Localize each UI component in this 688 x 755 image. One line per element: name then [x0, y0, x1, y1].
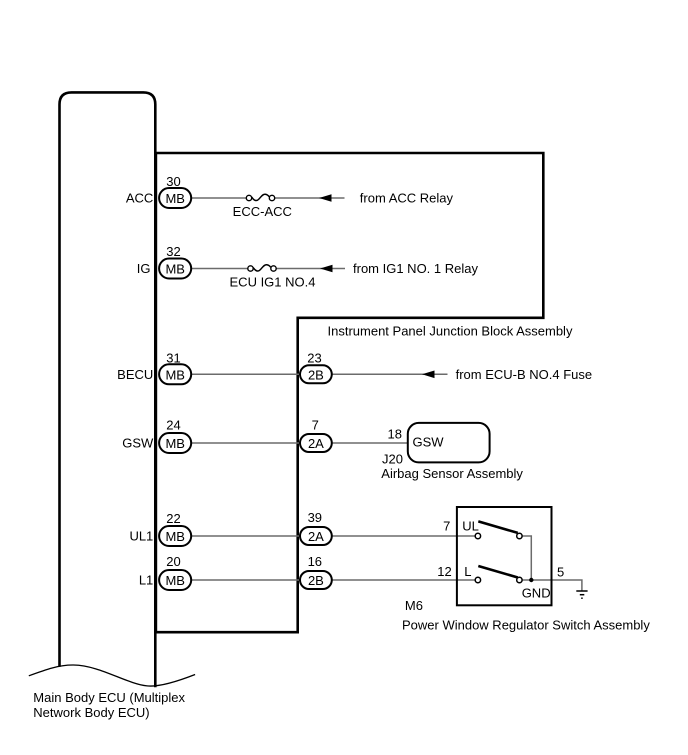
svg-text:M6: M6 [405, 598, 423, 613]
svg-text:12: 12 [437, 564, 451, 579]
wire L1: pin MB20 to junction block pin 2B16 [191, 579, 300, 581]
wire BECU: pin MB31 to junction block pin 2B23 [191, 373, 300, 375]
svg-text:22: 22 [166, 511, 180, 526]
svg-text:2B: 2B [308, 367, 324, 382]
wire IG: pin MB32 to fuse ECU IG1 NO.4 [191, 268, 248, 270]
wire ACC: pin MB30 to fuse ECC-ACC [191, 197, 246, 199]
svg-text:GSW: GSW [413, 434, 445, 449]
svg-text:MB: MB [165, 262, 185, 277]
svg-text:Power Window Regulator Switch: Power Window Regulator Switch Assembly [402, 618, 650, 633]
svg-text:ECU IG1 NO.4: ECU IG1 NO.4 [230, 275, 316, 290]
wire: switch UL contact to common junction [522, 536, 531, 580]
svg-text:2A: 2A [308, 436, 324, 451]
wire: pin 2A39 to switch pin 7 [332, 535, 478, 537]
svg-text:from ACC Relay: from ACC Relay [360, 191, 454, 206]
svg-text:GND: GND [522, 586, 551, 601]
connector MB pin 20 (L1) [159, 570, 191, 590]
svg-text:J20: J20 [382, 452, 403, 467]
switch contact UL (pin 7) [475, 521, 522, 538]
svg-text:16: 16 [308, 554, 322, 569]
connector 2A pin 39 [300, 527, 332, 545]
svg-text:MB: MB [165, 367, 185, 382]
wire: switch common to ground (pin 5) [522, 580, 582, 591]
connector 2A pin 7 [300, 434, 332, 452]
wire: pin 2B23 to ECU-B NO.4 Fuse [332, 373, 448, 375]
arrow from ACC Relay [319, 194, 332, 202]
svg-text:23: 23 [307, 351, 321, 366]
svg-text:30: 30 [166, 174, 180, 189]
Main Body ECU (Multiplex Network Body ECU) block outline [60, 92, 156, 687]
arrow from IG1 NO. 1 Relay [320, 265, 333, 273]
svg-text:MB: MB [165, 436, 185, 451]
switch M6 box (Power Window Regulator Switch Assembly) [457, 507, 552, 605]
connector MB pin 30 (ACC) [159, 188, 191, 208]
svg-text:L: L [464, 564, 471, 579]
svg-text:IG: IG [137, 261, 151, 276]
break line (wavy) at bottom of Main Body ECU [29, 665, 195, 686]
wire GSW: pin MB24 to junction block pin 2A7 [191, 442, 300, 444]
connector MB pin 32 (IG) [159, 259, 191, 279]
junction dot [529, 578, 533, 582]
connector MB pin 31 (BECU) [159, 364, 191, 384]
svg-text:5: 5 [557, 565, 564, 580]
svg-text:Network Body ECU): Network Body ECU) [33, 705, 149, 720]
svg-text:32: 32 [166, 244, 180, 259]
ground [576, 591, 587, 598]
svg-text:7: 7 [312, 418, 319, 433]
svg-text:2B: 2B [308, 573, 324, 588]
wire UL1: pin MB22 to junction block pin 2A39 [191, 535, 300, 537]
connector 2B pin 16 [300, 571, 332, 589]
svg-text:2A: 2A [308, 529, 324, 544]
connector MB pin 24 (GSW) [159, 433, 191, 453]
svg-text:MB: MB [165, 573, 185, 588]
svg-text:Airbag Sensor Assembly: Airbag Sensor Assembly [381, 466, 523, 481]
svg-text:18: 18 [388, 427, 402, 442]
svg-text:7: 7 [443, 518, 450, 533]
arrow from ECU-B NO.4 Fuse [422, 371, 435, 379]
svg-text:24: 24 [166, 418, 180, 433]
svg-text:MB: MB [165, 191, 185, 206]
wire: pin 2A7 to airbag sensor GSW pin 18 [332, 442, 408, 444]
svg-text:from IG1 NO. 1 Relay: from IG1 NO. 1 Relay [353, 261, 478, 276]
fuse ECC-ACC [246, 194, 274, 201]
fuse ECU IG1 NO.4 [248, 265, 276, 272]
svg-text:Instrument Panel Junction Bloc: Instrument Panel Junction Block Assembly [328, 323, 573, 338]
svg-text:GSW: GSW [122, 436, 154, 451]
connector 2B pin 23 [300, 365, 332, 383]
Instrument Panel Junction Block Assembly outline [156, 153, 543, 632]
svg-text:39: 39 [308, 510, 322, 525]
svg-text:ECC-ACC: ECC-ACC [233, 204, 292, 219]
wire: pin 2B16 to switch pin 12 [332, 579, 478, 581]
svg-text:20: 20 [166, 554, 180, 569]
connector MB pin 22 (UL1) [159, 526, 191, 546]
connector J20 Airbag Sensor Assembly (GSW) [408, 423, 490, 463]
svg-text:UL: UL [462, 518, 479, 533]
switch contact L (pin 12) [475, 566, 522, 583]
svg-text:BECU: BECU [117, 367, 153, 382]
wire: fuse ECU IG1 NO.4 to IG1 NO. 1 Relay [276, 268, 345, 270]
svg-text:31: 31 [166, 351, 180, 366]
svg-text:MB: MB [165, 529, 185, 544]
svg-text:L1: L1 [139, 573, 153, 588]
svg-text:Main Body ECU (Multiplex: Main Body ECU (Multiplex [33, 690, 185, 705]
wire: fuse ECC-ACC to ACC Relay [275, 197, 345, 199]
svg-text:from ECU-B NO.4 Fuse: from ECU-B NO.4 Fuse [456, 367, 593, 382]
svg-text:UL1: UL1 [129, 529, 153, 544]
svg-text:ACC: ACC [126, 191, 153, 206]
